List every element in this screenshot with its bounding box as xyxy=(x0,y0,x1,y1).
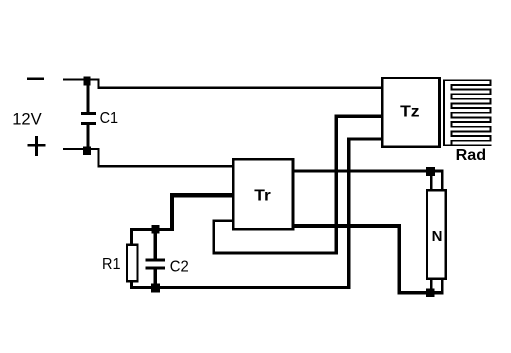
wire R1 bottom stub xyxy=(130,282,133,288)
wire bottom rail R1 C2 to Tz pin 3 xyxy=(130,286,351,289)
svg-text:Tz: Tz xyxy=(400,103,420,120)
battery plus terminal xyxy=(28,136,46,156)
resistor R1 xyxy=(126,244,139,283)
node F junction dot (N bottom) xyxy=(426,288,434,297)
svg-text:Rad: Rad xyxy=(456,147,487,164)
node C junction dot (C2 top) xyxy=(151,225,159,233)
svg-text:C2: C2 xyxy=(170,259,189,276)
transformer box Tr xyxy=(232,158,295,230)
wire Tz pin 3 to bottom rail xyxy=(347,137,381,289)
svg-text:N: N xyxy=(432,228,443,245)
lamp N xyxy=(426,189,447,280)
wire node B step down xyxy=(98,148,100,168)
radiator Rad heatsink xyxy=(443,79,491,146)
svg-text:12V: 12V xyxy=(12,109,42,128)
svg-text:C1: C1 xyxy=(100,110,119,127)
battery minus terminal xyxy=(27,77,44,80)
wire top rail to Tz pin 1 xyxy=(98,86,382,88)
wire minus terminal to node A xyxy=(63,79,100,81)
wire plus terminal to node B xyxy=(63,148,100,150)
wire Tr left pin 2 to R1 C2 top rail (thick) xyxy=(130,193,232,231)
node E junction dot (N top) xyxy=(426,167,435,176)
node B junction dot xyxy=(83,146,91,155)
wire R1 top stub xyxy=(130,228,133,244)
capacitor C2 xyxy=(146,258,165,284)
wire N top stub xyxy=(430,171,432,190)
wire node A step down to top rail xyxy=(98,79,100,89)
transistor box Tz xyxy=(381,77,441,148)
wire Tr right pin 2 to lamp N bottom (thick) xyxy=(295,224,444,295)
node D junction dot (C2 bottom) xyxy=(151,283,160,292)
wire Tz pin 2 to Tr lower-left pin xyxy=(213,114,382,254)
svg-text:Tr: Tr xyxy=(254,187,270,204)
capacitor C1 xyxy=(81,80,96,148)
wire Tr right pin 1 to lamp N top xyxy=(295,169,444,190)
wire lower rail to Tr left pin 1 xyxy=(98,165,233,168)
wire C2 top stub xyxy=(153,229,156,259)
node A junction dot xyxy=(84,76,91,85)
wire N bottom stub xyxy=(430,280,432,292)
svg-text:R1: R1 xyxy=(102,256,121,273)
